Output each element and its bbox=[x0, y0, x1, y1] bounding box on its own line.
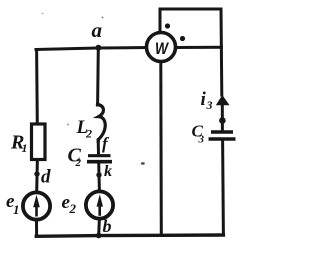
node on i3 branch bbox=[219, 117, 226, 124]
wattmeter W bbox=[147, 33, 176, 62]
resistor R1 bbox=[32, 124, 46, 160]
node k bbox=[96, 172, 101, 177]
wire e1 bottom to bottom wire bbox=[35, 220, 38, 236]
node d bbox=[34, 171, 39, 176]
node a bbox=[95, 45, 101, 51]
svg-text:1: 1 bbox=[22, 141, 28, 155]
wire right branch between arrow and C3 bbox=[221, 104, 224, 132]
wire W bottom vertical bbox=[159, 62, 163, 236]
wire left branch top (corner to R1) bbox=[35, 50, 39, 125]
svg-text:W: W bbox=[155, 39, 170, 58]
svg-text:k: k bbox=[104, 163, 112, 180]
svg-text:2: 2 bbox=[85, 127, 92, 141]
svg-text:2: 2 bbox=[75, 157, 82, 169]
wire top horizontal left (a to W) bbox=[36, 48, 147, 50]
current arrow i3 bbox=[216, 95, 230, 105]
wire right branch vertical upper bbox=[220, 9, 224, 95]
svg-text:3: 3 bbox=[198, 134, 205, 146]
stray speck bbox=[67, 124, 69, 126]
svg-text:2: 2 bbox=[69, 201, 77, 216]
wire middle branch top (a to L2) bbox=[96, 48, 100, 105]
svg-text:d: d bbox=[41, 167, 51, 188]
stray speck bbox=[141, 162, 145, 164]
stray speck bbox=[42, 13, 44, 15]
wattmeter dot 1 bbox=[165, 23, 170, 28]
inductor L2 bbox=[98, 105, 106, 142]
wire W right to right branch bbox=[176, 46, 222, 49]
source e1 bbox=[23, 192, 50, 219]
wire voltage-coil loop (W top to top-right corner) bbox=[160, 9, 221, 33]
wire C2 to e2 bbox=[97, 163, 101, 192]
wire bottom horizontal bbox=[36, 235, 223, 236]
node b bbox=[96, 233, 102, 239]
wire e2 bottom to node b bbox=[97, 221, 101, 236]
svg-text:1: 1 bbox=[13, 202, 20, 217]
wire right branch below C3 to bottom bbox=[221, 140, 225, 236]
svg-text:b: b bbox=[103, 216, 112, 236]
wattmeter dot 2 bbox=[180, 36, 185, 41]
wire L2 to C2 bbox=[97, 140, 100, 155]
stray speck bbox=[102, 17, 104, 19]
svg-text:a: a bbox=[92, 18, 103, 42]
wire R1 bottom to e1 bbox=[35, 158, 39, 192]
capacitor C2 bbox=[88, 154, 111, 157]
svg-text:3: 3 bbox=[206, 98, 213, 112]
capacitor C3 bbox=[211, 130, 233, 133]
source e2 bbox=[86, 191, 113, 218]
